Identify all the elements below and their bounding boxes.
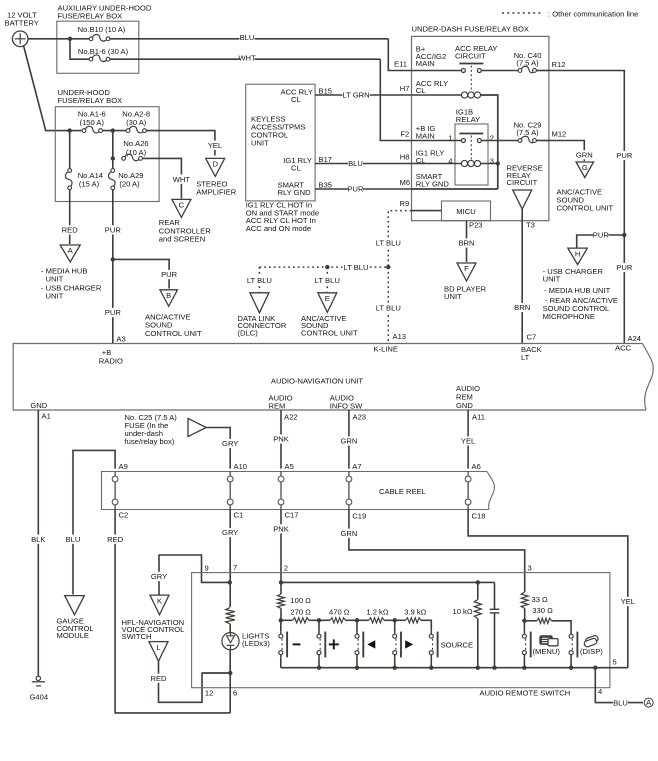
wire capacitor branch [494,582,496,609]
svg-text:UNIT: UNIT [444,292,462,301]
svg-text:G404: G404 [30,692,49,701]
label PUR acc top [617,151,632,160]
svg-text:SOURCE: SOURCE [441,640,474,649]
label GRY lower [223,528,238,537]
svg-text:3: 3 [528,564,532,573]
IG1B relay box [455,124,488,185]
wire 33ohm to menu junction [524,609,526,621]
svg-text:UNIT: UNIT [46,292,64,301]
connector arrow G [576,162,594,178]
wire A29 down +B radio column [112,190,114,344]
svg-text:LT BLU: LT BLU [247,276,272,285]
svg-text:B35: B35 [319,180,333,189]
wire C2 RED down [115,510,230,713]
svg-text:H7: H7 [400,84,410,93]
label GRY upper [223,439,238,448]
wire A22 to A5 [280,410,282,469]
svg-text:BLU: BLU [348,159,363,168]
wire A26 branch down [112,131,114,159]
LED lamp LIGHTS (LEDx3) [222,633,239,650]
label WHT [239,53,254,62]
svg-text:A5: A5 [285,462,294,471]
wire A14 to media hub arrow [69,190,71,244]
svg-text:GRY: GRY [222,439,238,448]
svg-text:CONTROL UNIT: CONTROL UNIT [145,329,202,338]
svg-text:BLU: BLU [613,698,628,707]
connector arrow C [172,199,191,217]
junction A26 branch [111,128,115,132]
svg-text:BRN: BRN [514,303,530,312]
svg-text:CL: CL [291,95,301,104]
wire 100ohm branch [280,582,282,594]
svg-text:No.A29: No.A29 [118,171,143,180]
svg-text:(MENU): (MENU) [533,647,561,656]
wire A1 BLK to ground [37,410,39,676]
wire terminal 4 to connector A [595,668,643,703]
svg-text:(7.5 A): (7.5 A) [516,58,539,67]
wire junction down to fuse B1-6 [70,39,89,59]
junction ANC branch [111,257,115,261]
svg-text:BLU: BLU [240,33,255,42]
wire A26 to rear controller [142,158,181,198]
svg-text:GND: GND [456,401,473,410]
svg-text:ACC and ON mode: ACC and ON mode [246,224,311,233]
wire plus to bus [318,658,320,668]
ACC relay dashed actuator [470,66,472,92]
svg-text:G: G [582,163,588,172]
wire WHT down to F2 [380,59,411,140]
wire to fuse A14 [69,131,71,169]
wire fuse C29 to M12 [536,140,549,142]
svg-text:MICU: MICU [456,207,475,216]
wire contact to fuse C40 [481,70,518,72]
label GRN upper [341,436,356,445]
label GRN lower [341,529,356,538]
svg-text:LT BLU: LT BLU [343,263,368,272]
svg-text:RED: RED [62,226,79,235]
svg-text:(7.5 A): (7.5 A) [516,128,539,137]
wire 10k branch [477,582,479,599]
svg-text:RADIO: RADIO [99,356,123,365]
svg-text:A7: A7 [352,462,361,471]
resistor 100 ohm [278,594,285,609]
svg-text:C18: C18 [472,512,486,521]
label LT BLU horizontal [342,263,369,272]
wire M12 to G arrow [549,141,584,162]
reel pins A5/C17 [278,476,284,482]
svg-text:CL: CL [416,86,426,95]
svg-text:C2: C2 [119,511,129,520]
label RED lower [108,535,123,544]
svg-text:T3: T3 [526,220,535,229]
svg-text:CONTROL UNIT: CONTROL UNIT [301,328,358,337]
svg-text:BLK: BLK [31,535,45,544]
reverse relay output triangle [513,190,532,209]
ladder junction minus [279,618,283,622]
svg-text:MICROPHONE: MICROPHONE [543,312,595,321]
svg-text:FUSE/RELAY BOX: FUSE/RELAY BOX [58,96,123,105]
svg-text:3.9 kΩ: 3.9 kΩ [404,608,426,617]
label LT BLU dlc [246,276,273,285]
connector arrow E [318,293,337,313]
wire capacitor to bus [494,613,496,668]
connector arrow F [457,263,476,281]
left arrow glyph [367,640,375,648]
switch minus contact [280,620,282,631]
svg-text:(150 A): (150 A) [80,118,105,127]
svg-text:A10: A10 [234,462,248,471]
label BLK [31,535,46,544]
wire R12 to A24 ACC column [549,71,624,344]
wire IG1B coil to smart gnd bus [481,163,498,165]
svg-text:A3: A3 [116,334,125,343]
svg-text:LT BLU: LT BLU [376,304,401,313]
svg-text:A23: A23 [353,413,367,422]
svg-text:C: C [179,201,185,210]
svg-text:YEL: YEL [621,597,635,606]
svg-text:33 Ω: 33 Ω [532,595,549,604]
svg-text:(DLC): (DLC) [238,328,259,337]
wire fuse B1-6 to WHT label [110,58,380,60]
svg-text:PUR: PUR [593,231,610,240]
label PUR acc lower [617,263,632,272]
svg-text:fuse/relay box): fuse/relay box) [125,437,175,446]
dotted stub E [326,267,328,291]
svg-text:(30 A): (30 A) [126,118,147,127]
svg-text:B15: B15 [319,86,333,95]
label PNK lower [273,524,288,533]
svg-text:RED: RED [107,535,124,544]
connector arrow L [149,642,168,662]
label LT BLU e [314,276,341,285]
switch plus contact [318,620,320,631]
ACC relay coil [461,92,467,98]
svg-text:- MEDIA HUB UNIT: - MEDIA HUB UNIT [544,286,611,295]
wire fuse C40 to R12 [536,70,549,72]
reel pins A7/C19 [346,476,352,482]
minus glyph [293,643,301,645]
wire T3 to C7 back lt [521,209,523,344]
under-dash fuse/relay box [412,36,549,220]
svg-text:RELAY: RELAY [456,115,480,124]
svg-text:RLY GND: RLY GND [278,188,312,197]
svg-text:RLY GND: RLY GND [416,180,450,189]
svg-text:AUDIO-NAVIGATION UNIT: AUDIO-NAVIGATION UNIT [271,377,363,386]
svg-text:GND: GND [30,401,47,410]
svg-text:LT BLU: LT BLU [315,276,340,285]
auxiliary under-hood fuse/relay box [57,21,139,73]
wire reel column A10-C1 [229,472,231,510]
svg-text:GRN: GRN [340,437,357,446]
label BLU keyless [348,159,363,168]
wire L RED to terminal 12 [159,661,231,702]
svg-text:PUR: PUR [105,308,122,317]
svg-text:LT: LT [521,353,530,362]
svg-text:A13: A13 [393,332,407,341]
svg-text:L: L [156,643,160,652]
label LT BLU upper [375,238,402,247]
wire H7 row to ACC coil [412,94,462,96]
wire ACC coil to smart gnd bus [481,95,498,189]
wire right-seek to bus [394,658,396,668]
junction terminal 4 [593,666,597,670]
svg-text:H8: H8 [400,153,410,162]
svg-text:E: E [325,294,330,303]
label BRN bd player [459,238,474,247]
svg-text:4: 4 [598,687,602,696]
wire B15 to H7 [315,94,411,96]
wire BLU down to E11 [388,39,411,71]
svg-text:LT BLU: LT BLU [376,239,401,248]
bus junction dots [317,666,321,670]
svg-text:SWITCH: SWITCH [122,632,152,641]
svg-text:(15 A): (15 A) [79,180,100,189]
svg-text:AUDIO REMOTE SWITCH: AUDIO REMOTE SWITCH [480,688,571,697]
wire A2-8 to stereo amplifier [146,131,215,156]
connector arrow H [568,248,588,265]
svg-text:M12: M12 [552,129,567,138]
svg-text:AMPLIFIER: AMPLIFIER [196,187,237,196]
wire E11 row [412,70,462,72]
svg-text:UNDER-DASH FUSE/RELAY BOX: UNDER-DASH FUSE/RELAY BOX [412,25,529,34]
label PUR keyless [348,184,363,193]
wire F2 row [412,140,462,142]
wire 2 top bus [281,581,495,583]
label WHT rear controller [174,175,189,184]
svg-text:No.A26: No.A26 [123,139,148,148]
svg-text:3: 3 [490,156,494,165]
right arrow glyph [405,640,413,648]
svg-text:and SCREEN: and SCREEN [159,235,205,244]
svg-text:RED: RED [150,674,167,683]
svg-text:A24: A24 [628,334,642,343]
label LT BLU lower [375,303,402,312]
label BRN back lt [515,303,530,312]
wire contact to fuse C29 [481,140,518,142]
svg-text:4: 4 [448,156,452,165]
svg-text:CABLE REEL: CABLE REEL [379,487,426,496]
svg-text:100 Ω: 100 Ω [290,596,311,605]
lights resistor [226,608,235,625]
under-hood fuse/relay box [55,107,159,202]
ladder junction plus [317,618,321,622]
wire lights branch [229,582,231,607]
svg-text:330 Ω: 330 Ω [532,606,553,615]
reel pins A6/C18 [465,476,471,482]
svg-text:PUR: PUR [105,226,122,235]
wire 330ohm to disp contact [552,621,572,631]
connector arrow A [60,245,80,262]
dotted stub DLC [258,267,260,291]
wire A9 up to BLU column [73,450,115,594]
wire H8 row to IG1B coil [412,163,462,165]
label PUR upper [105,225,120,234]
svg-text:No.B10 (10 A): No.B10 (10 A) [78,25,126,34]
audio-navigation unit box [13,344,646,411]
svg-text:D: D [212,160,218,169]
wire to fuse A29 [112,158,114,169]
svg-text:ACC: ACC [615,344,632,353]
wire LED to junction 6 [229,650,231,713]
junction LED bottom [228,671,232,675]
connector arrow DLC [250,293,269,313]
svg-text:470 Ω: 470 Ω [329,608,350,617]
wire branch to ANC arrow B [113,259,169,288]
wire minus to bus [280,658,282,668]
plus glyph [329,643,339,645]
svg-text:LT GRN: LT GRN [342,91,369,100]
fuse C25 feed arrow [188,418,206,436]
label BLU connector A [613,698,628,707]
wire resistor to LED [229,624,231,633]
label GRN [577,150,592,159]
svg-text:P23: P23 [469,220,483,229]
label BLU [239,33,254,42]
wire reel column A9-C2 [114,472,116,510]
label YEL upper [461,436,476,445]
ground symbol G404 [36,676,40,680]
svg-text:1.2 kΩ: 1.2 kΩ [366,608,388,617]
svg-text:A11: A11 [472,413,485,422]
svg-text:INFO SW: INFO SW [330,402,363,411]
svg-text:CONTROL UNIT: CONTROL UNIT [557,204,614,213]
svg-text:No.B1-6 (30 A): No.B1-6 (30 A) [78,47,129,56]
svg-text:A1: A1 [42,412,51,421]
IG1B relay contact [459,133,483,135]
svg-text:B: B [166,291,171,300]
svg-text:2: 2 [284,564,288,573]
wire reel column A5-C17 [280,472,282,510]
svg-text:PUR: PUR [616,151,633,160]
svg-text:E11: E11 [394,60,407,69]
label LT GRN [342,90,369,99]
wire source to bus [430,658,432,668]
svg-text:C17: C17 [285,511,299,520]
junction coil return [496,161,500,165]
wire A1-6 to A2-8 [102,130,126,132]
junction A14 branch [68,128,72,132]
svg-text:9: 9 [205,564,209,573]
IG1B relay coil [461,160,467,166]
svg-text:GRY: GRY [151,572,167,581]
wire PUR branch to H arrow [577,235,625,248]
svg-text:12: 12 [205,689,213,698]
svg-text:CIRCUIT: CIRCUIT [455,52,486,61]
wire B35 to M6 [315,188,411,190]
svg-text:YEL: YEL [208,141,222,150]
label PNK upper [273,434,288,443]
switch disp contact [570,631,572,634]
svg-text:GRN: GRN [340,529,357,538]
label BLU lower [65,535,80,544]
junction lights top [228,580,232,584]
svg-text:A9: A9 [119,462,128,471]
connector arrow K [150,595,169,615]
wire P23 to BD player [466,221,468,262]
ACC relay contact [459,63,483,65]
capacitor [490,608,500,610]
svg-text:H: H [575,249,580,258]
svg-text:F: F [464,264,469,273]
svg-text:C19: C19 [352,512,366,521]
wire battery to under-hood box [24,46,82,131]
junction 10k top [476,580,480,584]
wire C25 to A10 [206,428,230,469]
svg-text:F2: F2 [400,130,409,139]
svg-text:No.A14: No.A14 [78,171,103,180]
label YEL [207,141,222,150]
svg-text:A6: A6 [472,462,481,471]
dotted K-line to A13 [387,267,389,343]
svg-text:CIRCUIT: CIRCUIT [507,178,538,187]
switch left-seek contact [356,620,358,631]
svg-text:UNIT: UNIT [251,139,269,148]
junction PUR branch H [622,233,626,237]
wire 100ohm to ladder [280,609,282,621]
svg-text:YEL: YEL [461,437,475,446]
svg-text:K-LINE: K-LINE [374,344,398,353]
MICU box [442,201,491,221]
junction top bus pnk [279,580,283,584]
svg-text:MODULE: MODULE [57,631,90,640]
svg-text:(LEDx3): (LEDx3) [242,639,270,648]
wire left-seek to bus [356,658,358,668]
svg-text:WHT: WHT [173,175,191,184]
wire fuse B10 to BLU label [110,38,388,40]
wire C18 YEL down to bus corner [468,510,628,668]
svg-text:1: 1 [448,133,452,142]
svg-text:10 kΩ: 10 kΩ [453,607,473,616]
connector arrow D [206,158,225,176]
svg-text:R9: R9 [400,199,410,208]
svg-text:C1: C1 [234,511,244,520]
switch right-seek contact [394,620,396,631]
svg-text:K: K [157,596,162,605]
svg-text:PNK: PNK [273,525,289,534]
reel pins A10/C1 [227,476,233,482]
ladder junction right arrow [393,618,397,622]
keyless access/TPMS control unit box [246,84,315,201]
label PUR branch [162,270,177,279]
svg-text:BRN: BRN [458,239,474,248]
junction A29 branch [111,156,115,160]
reel pins A9/C2 [112,476,118,482]
wire M6 row smart rly gnd [412,188,498,190]
svg-text:MAIN: MAIN [416,59,435,68]
wire C1 GRY down to terminal 7 [229,510,231,583]
wire junction to terminal 12 column [202,672,230,674]
wire reel column A6-C18 [467,472,469,510]
audio remote switch box [192,573,610,688]
svg-text:270 Ω: 270 Ω [290,608,311,617]
wire battery to fuse B10 [28,38,89,40]
legend: other communication line [502,12,543,14]
menu icon [540,636,553,645]
svg-text:GRY: GRY [222,528,238,537]
svg-text:A22: A22 [284,413,298,422]
connector circle A [644,698,653,707]
wire 3.9k to source switch [421,620,431,631]
svg-text:PUR: PUR [616,263,633,272]
label RED hfl [151,674,166,683]
IG1B dashed actuator [470,136,472,162]
wire 10k to bus [477,619,479,668]
svg-text:WHT: WHT [238,53,256,62]
switch source contact [430,631,432,634]
label PUR branch H [593,230,608,239]
wire A11 to A6 [467,410,469,469]
svg-text:B17: B17 [319,155,333,164]
